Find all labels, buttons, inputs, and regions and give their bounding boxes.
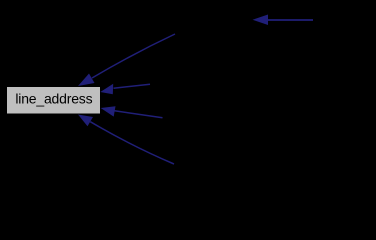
wire: arrow A (top right, horizontal, points left): [253, 15, 314, 26]
wire: curve B (from upper right into node top-right corner): [78, 34, 175, 86]
node line_address: [7, 87, 100, 114]
wire: line C (into node right edge, upper): [100, 84, 150, 94]
wire: line D (into node right edge, lower): [101, 106, 163, 118]
svg-text:line_address: line_address: [15, 90, 92, 106]
wire: curve E (from lower right into node bottom-right corner): [78, 115, 174, 165]
